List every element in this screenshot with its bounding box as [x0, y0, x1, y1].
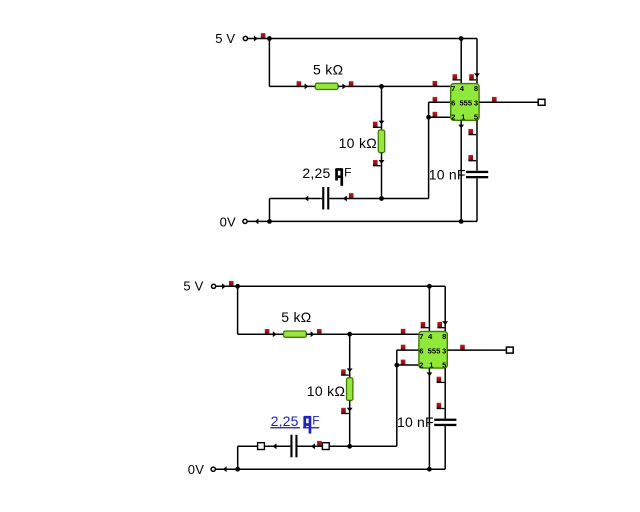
svg-text:5 kΩ: 5 kΩ [281, 309, 311, 325]
circuit 1: 555 astable (top) [215, 31, 545, 229]
probe marker [401, 329, 406, 334]
probe marker [317, 329, 322, 334]
svg-text:8: 8 [442, 332, 446, 341]
wire 5V down [237, 286, 239, 334]
wire to R left [238, 333, 284, 335]
resistor R2a 5 kOhm [284, 331, 307, 337]
junction [267, 36, 272, 41]
wire 5V stub [248, 38, 270, 40]
capacitor C1b 10 nF plate top [466, 171, 488, 173]
probe marker [297, 81, 302, 86]
value label 2,25 uF [270, 413, 319, 434]
wire cap to 0V [444, 426, 446, 469]
wire 5V rail [238, 285, 446, 287]
wire to pin 6 [397, 349, 419, 351]
junction [459, 219, 464, 224]
resistor R2b 10 kOhm [347, 378, 353, 401]
svg-text:8: 8 [474, 84, 478, 93]
wire mid vertical [428, 102, 430, 198]
wire cap row left [270, 198, 323, 200]
current arrow [342, 84, 346, 90]
probe marker [261, 33, 266, 38]
junction [235, 467, 240, 472]
wire to pin 2 [397, 364, 419, 366]
terminal T1out output [538, 99, 545, 105]
current arrow [255, 219, 259, 225]
current arrow [347, 408, 353, 412]
op-amp U2 555 timer IC [419, 331, 447, 369]
capacitor C1a 2,25 uF plate right [327, 187, 329, 210]
svg-text:0V: 0V [220, 214, 236, 229]
terminal T2b 0V [211, 467, 215, 471]
wire to pin 4 [428, 286, 430, 331]
wire pin 1 to 0V [428, 368, 430, 469]
svg-text:6: 6 [451, 99, 455, 108]
current arrow [273, 331, 277, 337]
junction [427, 284, 432, 289]
probe marker [373, 160, 381, 166]
wire pin 5 to cap [476, 120, 478, 171]
current arrow [379, 121, 385, 125]
wire R2 down [381, 153, 383, 199]
terminal T2out output [506, 347, 513, 353]
probe marker [373, 122, 381, 128]
wire to pin 8 [476, 39, 478, 84]
capacitor C2a 2,25 uF plate right [295, 435, 297, 458]
wire to pin 2 [429, 116, 451, 118]
wire cap row left [238, 445, 291, 447]
svg-text:5 V: 5 V [215, 31, 235, 46]
wire pin 1 to 0V [460, 120, 462, 221]
capacitor C2b 10 nF plate top [434, 419, 456, 421]
svg-text:F: F [344, 166, 351, 180]
capacitor C1a 2,25 uF plate left [322, 187, 324, 210]
junction [235, 284, 240, 289]
wire 0V rail [247, 220, 477, 222]
svg-text:5 V: 5 V [183, 279, 203, 294]
probe marker [453, 74, 461, 80]
current arrow [254, 36, 258, 42]
wire cap row to 0V [237, 446, 239, 469]
wire cap row right [298, 445, 397, 447]
wire to pin 6 [429, 101, 451, 103]
wire R to pin 7 [338, 85, 451, 87]
wire 5V down [268, 39, 270, 87]
junction [347, 444, 352, 449]
wire junction to R2 [349, 334, 351, 378]
wire 5V rail [269, 38, 477, 40]
probe marker [433, 112, 438, 117]
wire 0V rail [215, 468, 445, 470]
svg-text:0V: 0V [188, 462, 204, 477]
current arrow [222, 283, 226, 289]
probe marker [341, 408, 349, 414]
wire pin 5 to cap [444, 368, 446, 419]
probe marker [421, 322, 429, 328]
probe marker [317, 441, 322, 446]
capacitor C1b 10 nF plate bottom [466, 176, 488, 178]
svg-text:5 kΩ: 5 kΩ [313, 61, 343, 77]
svg-text:7: 7 [419, 332, 423, 341]
value label 2,25 uF [302, 165, 351, 186]
junction [427, 467, 432, 472]
resistor R1a 5 kOhm [315, 83, 338, 89]
current arrow [343, 196, 347, 202]
svg-text:10 nF: 10 nF [397, 414, 434, 430]
current arrow [379, 160, 385, 164]
svg-text:6: 6 [419, 346, 423, 355]
probe marker [349, 193, 354, 198]
wire cap row right [329, 198, 428, 200]
probe marker [460, 345, 465, 350]
junction [267, 219, 272, 224]
junction [459, 36, 464, 41]
probe marker [433, 97, 438, 102]
current arrow [223, 466, 227, 472]
current arrow [304, 196, 308, 202]
current arrow [273, 443, 277, 449]
svg-text:2: 2 [451, 113, 455, 122]
selection handle [258, 443, 265, 450]
probe marker [341, 369, 349, 375]
wire cap row to 0V [269, 199, 271, 222]
probe marker [469, 74, 476, 80]
current arrow [305, 84, 309, 90]
svg-text:F: F [312, 414, 319, 428]
terminal T2a 5V [212, 284, 216, 288]
op-amp U1 555 timer IC [451, 84, 479, 122]
junction [394, 363, 399, 368]
svg-text:10 nF: 10 nF [429, 166, 466, 182]
wire mid vertical [396, 350, 398, 446]
svg-text:555: 555 [459, 99, 472, 108]
probe marker [401, 360, 406, 365]
capacitor C2b 10 nF plate bottom [434, 424, 456, 426]
probe marker [433, 81, 438, 86]
capacitor C2a 2,25 uF plate left [290, 435, 292, 458]
junction [347, 332, 352, 337]
current arrow [442, 321, 448, 325]
current arrow [311, 331, 315, 337]
probe marker [401, 345, 406, 350]
junction [426, 115, 431, 120]
svg-text:7: 7 [451, 84, 455, 93]
circuit 2: 555 astable (bottom, selected capacitor) [183, 279, 513, 477]
current arrow [311, 443, 315, 449]
current arrow [458, 125, 464, 129]
wire junction to R2 [381, 86, 383, 130]
junction [379, 84, 384, 89]
probe marker [492, 97, 497, 102]
current arrow [474, 73, 480, 77]
wire pin 3 output [447, 349, 509, 351]
probe marker [437, 377, 445, 383]
terminal T1a 5V [243, 36, 247, 40]
svg-text:3: 3 [474, 99, 478, 108]
svg-text:10 kΩ: 10 kΩ [339, 135, 377, 151]
junction [379, 196, 384, 201]
svg-text:3: 3 [442, 346, 446, 355]
wire to pin 4 [460, 39, 462, 84]
current arrow [427, 372, 433, 376]
current arrow [347, 368, 353, 372]
probe marker [349, 81, 354, 86]
svg-text:555: 555 [428, 346, 441, 355]
probe marker [468, 129, 476, 135]
terminal T1b 0V [243, 219, 247, 223]
wire R2 down [349, 400, 351, 446]
resistor R1b 10 kOhm [378, 130, 384, 153]
probe marker [265, 329, 270, 334]
wire to pin 8 [444, 286, 446, 331]
wire R to pin 7 [306, 333, 419, 335]
wire to R left [269, 85, 315, 87]
svg-text:2: 2 [419, 360, 423, 369]
wire 5V stub [216, 285, 238, 287]
svg-text:2,25: 2,25 [271, 413, 299, 429]
probe marker [468, 155, 476, 161]
selection handle [322, 443, 329, 450]
svg-text:10 kΩ: 10 kΩ [307, 383, 345, 399]
wire cap to 0V [476, 178, 478, 221]
probe marker [437, 322, 444, 328]
probe marker [437, 403, 445, 409]
svg-text:2,25: 2,25 [302, 165, 330, 181]
wire pin 3 output [479, 101, 541, 103]
probe marker [229, 281, 234, 286]
